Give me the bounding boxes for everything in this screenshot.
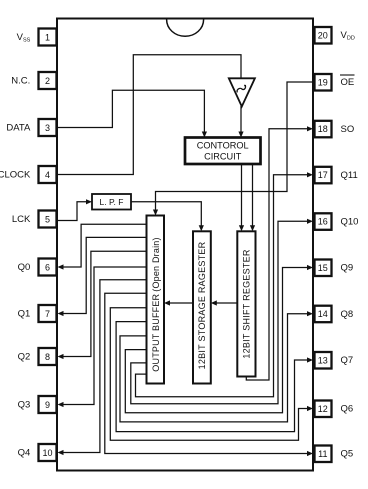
control circuit block — [185, 138, 261, 165]
svg-text:15: 15 — [318, 263, 328, 273]
svg-text:Q3: Q3 — [18, 400, 31, 411]
wire Q11 to pin 17 — [136, 172, 314, 397]
pin 9 box — [39, 396, 57, 413]
svg-text:L. P. F: L. P. F — [100, 197, 124, 207]
svg-text:OE: OE — [341, 77, 355, 88]
pin 14 box — [315, 306, 332, 323]
IC body U1 — [57, 19, 313, 471]
svg-text:13: 13 — [318, 355, 328, 365]
wire storage register to output buffer — [164, 300, 193, 305]
wire Q10 to pin 16 — [131, 219, 313, 404]
wire Q2 to pin 8 — [58, 251, 147, 359]
svg-text:Q4: Q4 — [18, 448, 31, 459]
svg-text:12BIT SHIFT REGESTER: 12BIT SHIFT REGESTER — [242, 249, 252, 358]
wire DATA to control circuit — [57, 90, 207, 137]
wire OE to output buffer — [153, 82, 313, 216]
notch — [167, 20, 204, 37]
svg-text:14: 14 — [318, 309, 328, 319]
wire Q8 to pin 14 — [120, 311, 313, 422]
output buffer block — [147, 216, 165, 384]
pin 11 box — [315, 446, 332, 463]
svg-text:Q7: Q7 — [341, 355, 354, 366]
pin 19 box — [315, 74, 332, 91]
svg-text:Q0: Q0 — [18, 262, 31, 273]
svg-text:9: 9 — [45, 400, 50, 410]
svg-text:6: 6 — [45, 262, 50, 272]
svg-text:1: 1 — [45, 32, 50, 42]
wire LPF to storage register — [131, 202, 204, 232]
svg-text:11: 11 — [318, 449, 327, 459]
svg-text:10: 10 — [42, 448, 52, 458]
L.P.F block — [92, 194, 131, 210]
pin 4 box — [39, 166, 57, 183]
pin 10 box — [39, 444, 57, 461]
svg-text:CLOCK: CLOCK — [0, 170, 31, 181]
svg-text:19: 19 — [318, 77, 328, 87]
pin 15 box — [315, 260, 332, 277]
pin 3 box — [39, 119, 57, 136]
svg-text:Q11: Q11 — [341, 170, 358, 181]
wire Q6 to pin 12 — [110, 308, 313, 441]
svg-text:Q1: Q1 — [18, 309, 31, 320]
svg-text:4: 4 — [45, 170, 50, 180]
oscillator amp triangle — [229, 78, 255, 106]
svg-text:Q6: Q6 — [341, 404, 354, 415]
pin 13 box — [315, 352, 332, 369]
svg-text:Q2: Q2 — [18, 352, 31, 363]
pin 8 box — [39, 348, 57, 365]
svg-text:12: 12 — [318, 404, 328, 414]
wire LCK to LPF — [57, 199, 92, 220]
svg-text:16: 16 — [318, 217, 328, 227]
wire oscillator to control circuit — [238, 106, 243, 138]
pin 7 box — [39, 305, 57, 322]
wire Q9 to pin 15 — [125, 265, 313, 413]
wire Q3 to pin 9 — [58, 267, 147, 407]
svg-text:DATA: DATA — [6, 123, 31, 134]
svg-text:18: 18 — [318, 124, 328, 134]
svg-text:5: 5 — [45, 214, 50, 224]
pin 6 box — [39, 259, 57, 276]
pin 2 box — [39, 72, 57, 89]
wire control to shift register A — [239, 164, 244, 231]
svg-text:8: 8 — [45, 352, 50, 362]
pin 16 box — [315, 213, 332, 230]
svg-text:17: 17 — [318, 170, 328, 180]
pin 19 label OE (overline) — [340, 75, 355, 88]
pin 20 box — [315, 27, 332, 44]
wire CLOCK to oscillator — [57, 55, 241, 175]
svg-text:7: 7 — [45, 309, 50, 319]
pin 1 box — [39, 29, 57, 46]
svg-text:N.C.: N.C. — [11, 76, 30, 87]
svg-text:20: 20 — [318, 30, 328, 40]
svg-text:Q10: Q10 — [341, 217, 359, 228]
svg-text:Q9: Q9 — [341, 263, 354, 274]
pin 5 box — [39, 211, 57, 228]
svg-text:SO: SO — [341, 124, 355, 135]
svg-text:CIRCUIT: CIRCUIT — [204, 152, 242, 162]
wire Q4 to pin 10 — [58, 280, 147, 455]
pin 18 box — [315, 121, 332, 138]
wire Q7 to pin 13 — [116, 322, 313, 432]
wire control to shift register B — [250, 164, 255, 231]
wire SO from shift register to pin 18 — [246, 126, 313, 380]
wire shift register to storage register — [211, 300, 238, 305]
svg-text:3: 3 — [45, 123, 50, 133]
svg-text:2: 2 — [45, 76, 50, 86]
wire Q5 to pin 11 — [105, 293, 313, 456]
12bit shift register block — [237, 231, 255, 376]
pin 12 box — [315, 401, 332, 418]
svg-text:CONTOROL: CONTOROL — [197, 141, 249, 151]
svg-text:Q8: Q8 — [341, 309, 354, 320]
svg-text:LCK: LCK — [12, 214, 31, 225]
svg-text:OUTPUT BUFFER (Open Drain): OUTPUT BUFFER (Open Drain) — [151, 237, 161, 371]
svg-text:Q5: Q5 — [341, 449, 354, 460]
wire Q0 to pin 6 — [58, 224, 147, 269]
12bit storage register block — [193, 231, 211, 383]
pin 17 box — [315, 167, 332, 184]
svg-text:12BIT STORAGE RAGESTER: 12BIT STORAGE RAGESTER — [197, 241, 207, 369]
wire Q1 to pin 7 — [58, 237, 147, 316]
